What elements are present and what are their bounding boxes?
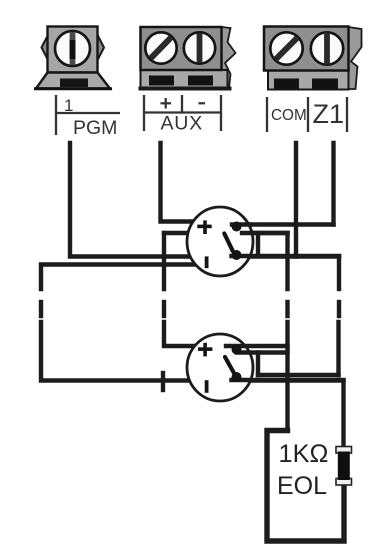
wire EOL loop left and bottom (267, 431, 344, 542)
wire COM vertical (294, 143, 298, 257)
wire jog V258 detector1 (256, 233, 260, 256)
wire dash rail164 (162, 302, 166, 316)
wire left rail negative return (41, 265, 200, 290)
detector SD2 body (187, 334, 253, 401)
wire rail164 upper solid (162, 233, 166, 289)
wire detector2 upper contact wire (237, 350, 288, 354)
svg-text:1KΩ: 1KΩ (279, 440, 329, 468)
wire rail288 lower solid down to EOL loop (285, 322, 289, 431)
wire jog H2 from rail164 to rail288 (164, 231, 288, 235)
wire detector2 band connecting jogs (258, 373, 339, 377)
detector1 plus mark (197, 220, 211, 234)
wire rail339 lower solid to detector2 band (336, 322, 340, 375)
label plus AUX (161, 98, 172, 109)
label lines AUX (144, 95, 221, 131)
terminal block AUX (139, 27, 236, 91)
wire detector1 upper contact to Z1 (232, 222, 334, 226)
wire rail339 from detector1 lower contact (337, 257, 341, 290)
wire rail164 lower into detector2 plus (164, 322, 200, 346)
svg-text:Z1: Z1 (313, 99, 345, 129)
svg-text:EOL: EOL (277, 472, 327, 500)
detector2 contact dot upper (232, 345, 242, 355)
detector2 plus mark (198, 343, 212, 357)
wire Z1 vertical (331, 143, 335, 225)
wire left rail lower solid to detector2 negative (41, 322, 344, 447)
label lines PGM (56, 95, 120, 135)
wire dash rail288 (285, 302, 289, 316)
terminal block PGM (34, 27, 112, 89)
label minus AUX (199, 102, 206, 104)
svg-text:1: 1 (64, 96, 73, 115)
svg-text:AUX: AUX (161, 113, 204, 135)
detector1 contact dot lower (232, 250, 242, 260)
svg-text:PGM: PGM (73, 117, 117, 139)
wire jog V258 detector2 (256, 353, 260, 376)
detector2 lever (225, 357, 235, 374)
detector1 contact dot upper (232, 222, 242, 232)
wire dash left rail (39, 302, 43, 316)
detector2 minus mark (205, 380, 209, 393)
wire PGM vertical + horizontal to detector negatives (70, 143, 339, 257)
detector1 lever (224, 234, 233, 252)
terminal block COM Z1 (264, 27, 362, 90)
svg-text:COM: COM (271, 107, 307, 124)
label lines COM Z1 (267, 97, 347, 132)
wire rail288 upper solid (285, 233, 289, 289)
detector SD1 body (187, 207, 253, 276)
wire H2 visible restart near dot1 (242, 231, 288, 235)
wire detector1 lower contact wire (232, 254, 340, 258)
wire detector1 contact wire over circle (232, 222, 250, 226)
wire AUX+ down and into detector 1 plus (161, 143, 201, 222)
resistor EOL 1K ohm (336, 447, 352, 486)
wire detector2 lower contact wire (232, 378, 344, 382)
wire detector2 line1 over (226, 344, 288, 348)
detector2 contact dot lower (232, 372, 242, 382)
detector1 minus mark (205, 256, 209, 268)
wire dash rail339 (337, 302, 341, 316)
wire dash rail164 below detector2 (161, 373, 165, 390)
